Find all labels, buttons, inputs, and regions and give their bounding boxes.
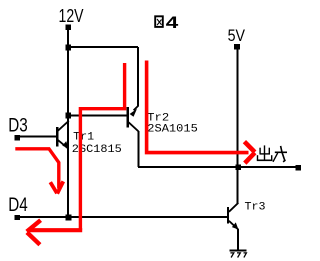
svg-text:Tr1: Tr1 [73, 131, 94, 143]
svg-text:4: 4 [166, 13, 179, 32]
svg-text:5V: 5V [228, 26, 246, 45]
svg-text:12V: 12V [59, 5, 84, 26]
svg-text:D4: D4 [8, 194, 28, 216]
svg-text:2SA1015: 2SA1015 [147, 123, 198, 135]
svg-text:D3: D3 [8, 115, 28, 137]
svg-text:Tr3: Tr3 [245, 202, 266, 214]
